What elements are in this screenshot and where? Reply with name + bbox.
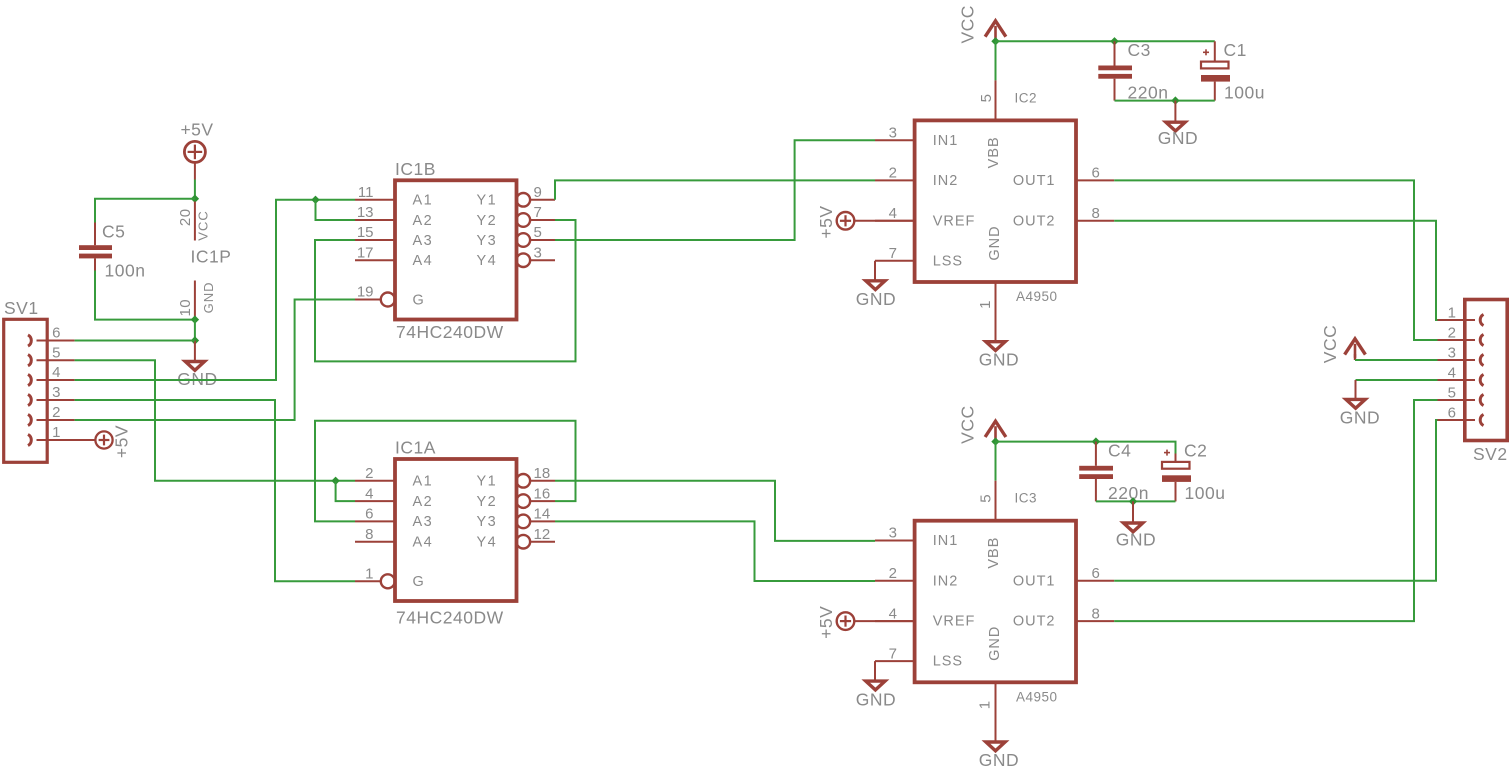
- node junction at C3 top: [1110, 37, 1118, 45]
- ic IC3 pin 4 VREF: [875, 620, 915, 622]
- ground GND below IC1P: [194, 341, 196, 361]
- svg-text:100u: 100u: [1224, 83, 1265, 103]
- svg-text:GND: GND: [987, 626, 1003, 661]
- node junction GND of C4/C2: [1129, 497, 1137, 505]
- ic IC1A pin 12 Y4 inverted output: [517, 535, 531, 549]
- svg-text:GND: GND: [1158, 128, 1198, 148]
- ic IC2 pin 2 IN2: [875, 179, 915, 181]
- ic IC1B 74HC240 buffer body: [395, 180, 517, 319]
- ground GND at SV2 pin4: [1356, 379, 1438, 381]
- svg-text:2: 2: [889, 165, 897, 182]
- wire IC1B Y3 to IC2 IN1: [555, 140, 875, 240]
- ic IC3 pin 5 VBB: [995, 481, 997, 521]
- wire VCC to SV2 pin3: [1355, 359, 1438, 361]
- ic IC1A pin 18 Y1 inverted output: [517, 474, 531, 488]
- ic IC2 A4950 motor driver body: [915, 120, 1076, 282]
- wire junction to IC1A A2: [336, 481, 355, 501]
- svg-text:A4: A4: [413, 535, 434, 551]
- ic IC1A pin 16 Y2 inverted output: [517, 494, 531, 508]
- svg-text:4: 4: [365, 485, 373, 502]
- svg-text:GND: GND: [979, 750, 1019, 770]
- svg-text:3: 3: [52, 384, 60, 401]
- ic IC1B pin 19 G enable: [355, 299, 381, 301]
- svg-text:Y1: Y1: [477, 193, 498, 209]
- svg-text:A1: A1: [413, 193, 434, 209]
- svg-text:4: 4: [1448, 364, 1456, 381]
- svg-text:VCC: VCC: [957, 405, 977, 443]
- wire C3 bottom to C1 bottom: [1115, 100, 1215, 102]
- svg-text:IC1B: IC1B: [395, 159, 436, 179]
- ic IC2 pin 4 VREF: [875, 220, 915, 222]
- svg-text:VBB: VBB: [986, 136, 1002, 168]
- svg-text:5: 5: [978, 94, 995, 103]
- svg-text:16: 16: [534, 485, 551, 502]
- svg-text:7: 7: [534, 204, 542, 221]
- svg-text:A4950: A4950: [1016, 689, 1058, 704]
- svg-text:VREF: VREF: [933, 614, 976, 630]
- svg-text:VCC: VCC: [957, 5, 977, 43]
- svg-text:19: 19: [357, 284, 374, 301]
- svg-text:2: 2: [365, 465, 373, 482]
- svg-text:GND: GND: [856, 289, 896, 309]
- ic IC3 pin 8 OUT2: [1076, 620, 1114, 622]
- svg-text:1: 1: [52, 424, 60, 441]
- svg-text:220n: 220n: [1108, 483, 1149, 503]
- ic IC3 pin 6 OUT1: [1076, 580, 1114, 582]
- svg-text:Y3: Y3: [477, 233, 498, 249]
- svg-text:IC1A: IC1A: [395, 438, 436, 458]
- ic IC1B pin 3 Y4 inverted output: [517, 253, 531, 267]
- ground GND below C3/C1: [1174, 101, 1176, 121]
- supply VCC symbol above IC3: [985, 421, 1006, 437]
- wire C4 bottom to C2 bottom: [1096, 500, 1176, 502]
- wire VCC junction to IC3 VBB pin: [995, 442, 997, 481]
- svg-text:IN1: IN1: [933, 533, 959, 549]
- svg-text:A2: A2: [413, 213, 434, 229]
- ic IC2 pin 8 OUT2: [1076, 220, 1114, 222]
- wire IC2 OUT1 to SV2 pin2: [1114, 180, 1437, 340]
- connector SV1 pin 2: [28, 414, 31, 425]
- ic IC3 pin 7 LSS: [875, 660, 915, 662]
- svg-text:6: 6: [365, 506, 373, 523]
- node junction IC1B A1/A2: [311, 196, 319, 204]
- wire IC1A Y1 to IC3 IN1: [555, 481, 875, 541]
- ic IC1B pin 17 A4: [355, 259, 395, 261]
- svg-text:A3: A3: [413, 233, 434, 249]
- ic IC1A 74HC240 buffer body: [395, 459, 517, 601]
- svg-text:LSS: LSS: [933, 654, 963, 670]
- svg-text:LSS: LSS: [933, 253, 963, 269]
- capacitor C2 polarized: [1175, 454, 1177, 462]
- connector SV2 pin 5: [1480, 394, 1483, 405]
- svg-text:+5V: +5V: [180, 120, 213, 140]
- svg-text:IN2: IN2: [933, 573, 959, 589]
- ic IC1A pin 14 Y3 inverted output: [517, 515, 531, 529]
- wire IC3 OUT1 to SV2 pin6: [1114, 420, 1437, 581]
- svg-text:1: 1: [977, 300, 994, 309]
- ic IC1B pin 11 A1: [355, 199, 395, 201]
- node VCC junction above IC2: [991, 37, 999, 45]
- node VCC junction at IC1P pin20: [191, 195, 199, 203]
- ground GND below C4/C2: [1132, 501, 1134, 521]
- svg-text:1: 1: [1448, 304, 1456, 321]
- svg-text:IC2: IC2: [1015, 90, 1038, 105]
- svg-text:A3: A3: [413, 514, 434, 530]
- node junction at C4 top: [1092, 437, 1100, 445]
- svg-text:12: 12: [534, 526, 551, 543]
- supply +5V symbol at IC2 VREF: [837, 212, 855, 230]
- svg-text:GND: GND: [1116, 529, 1156, 549]
- svg-text:Y4: Y4: [477, 535, 498, 551]
- wire IC2 VCC to bypass capacitors: [996, 40, 1215, 42]
- ic IC1B pin 13 A2: [355, 219, 395, 221]
- svg-text:OUT2: OUT2: [1013, 213, 1056, 229]
- svg-text:6: 6: [1448, 404, 1456, 421]
- capacitor C4: [1095, 442, 1097, 466]
- svg-text:5: 5: [52, 344, 60, 361]
- ic IC3 pin 3 IN1: [875, 540, 915, 542]
- ground GND at IC3 LSS: [874, 661, 876, 680]
- ic IC3 A4950 motor driver body: [915, 521, 1076, 683]
- ic IC1A pin 6 A3: [355, 520, 395, 522]
- wire SV1 pin3 to IC1A G: [75, 400, 355, 581]
- ic IC1A pin 1 G enable: [355, 580, 381, 582]
- svg-text:C5: C5: [102, 222, 125, 242]
- svg-text:+5V: +5V: [816, 205, 836, 238]
- svg-text:6: 6: [52, 325, 60, 342]
- svg-text:IC3: IC3: [1015, 491, 1038, 506]
- svg-text:Y4: Y4: [477, 253, 498, 269]
- svg-text:17: 17: [357, 244, 374, 261]
- wire IC1B Y1 to IC2 IN2: [555, 180, 875, 199]
- connector SV2 body: [1465, 300, 1507, 441]
- wire junction to GND net: [194, 320, 196, 341]
- svg-text:IC1P: IC1P: [191, 247, 232, 267]
- svg-text:IN1: IN1: [933, 133, 959, 149]
- ic IC1B pin 7 Y2 inverted output: [517, 213, 531, 227]
- svg-text:A1: A1: [413, 474, 434, 490]
- svg-text:OUT1: OUT1: [1013, 573, 1056, 589]
- ic IC1A pin 8 A4: [355, 541, 395, 543]
- svg-text:Y2: Y2: [477, 494, 498, 510]
- ic IC1A pin 4 A2: [355, 500, 395, 502]
- ic IC1B pin 9 Y1 inverted output: [517, 193, 531, 207]
- svg-text:100u: 100u: [1185, 483, 1226, 503]
- svg-text:Y1: Y1: [477, 474, 498, 490]
- wire SV1 pin5 to IC1A A1: [75, 360, 355, 481]
- svg-text:GND: GND: [1340, 407, 1380, 427]
- svg-text:7: 7: [889, 645, 897, 662]
- svg-text:A4: A4: [413, 253, 434, 269]
- svg-text:3: 3: [1448, 344, 1456, 361]
- svg-text:C4: C4: [1108, 441, 1131, 461]
- wire SV1 pin2 to IC1B G: [75, 300, 355, 421]
- svg-text:8: 8: [1092, 205, 1100, 222]
- svg-text:3: 3: [534, 244, 542, 261]
- wire C5 bottom to GND junction: [95, 271, 195, 320]
- ic IC2 pin 5 VBB: [995, 80, 997, 120]
- svg-text:4: 4: [889, 605, 897, 622]
- svg-text:18: 18: [534, 465, 551, 482]
- svg-text:8: 8: [1092, 605, 1100, 622]
- ic IC1A pin 2 A1: [355, 480, 395, 482]
- connector SV2 pin 3: [1480, 354, 1483, 365]
- wire VCC junction to IC2 VBB pin: [995, 41, 997, 80]
- svg-text:6: 6: [1092, 565, 1100, 582]
- svg-text:2: 2: [1448, 324, 1456, 341]
- svg-text:GND: GND: [201, 281, 216, 313]
- svg-text:SV2: SV2: [1473, 444, 1508, 464]
- svg-text:14: 14: [534, 506, 551, 523]
- connector SV1 pin 3: [28, 394, 31, 405]
- capacitor C5: [94, 223, 96, 246]
- svg-text:G: G: [413, 292, 426, 308]
- ic IC1B pin 15 A3: [355, 239, 395, 241]
- ground GND below IC3: [986, 742, 1005, 751]
- svg-text:GND: GND: [856, 689, 896, 709]
- capacitor C1 polarized: [1214, 41, 1216, 61]
- node junction GND net / SV1 pin6: [191, 336, 199, 344]
- svg-text:1: 1: [977, 700, 994, 709]
- svg-text:20: 20: [177, 208, 194, 226]
- supply VCC symbol at SV2 pin3: [1345, 339, 1366, 355]
- node junction IC1P pin10 / C5: [191, 315, 199, 323]
- wire IC1B Y2 feedback to A3: [315, 220, 576, 361]
- ic IC1P power pin 10 GND: [194, 281, 196, 320]
- wire VCC junction to C5 top: [95, 199, 195, 223]
- svg-text:C2: C2: [1184, 441, 1207, 461]
- connector SV1 pin 1: [28, 434, 31, 445]
- connector SV1 pin 4: [28, 374, 31, 385]
- svg-text:GND: GND: [979, 350, 1019, 370]
- connector SV2 pin 4: [1480, 374, 1483, 385]
- svg-text:74HC240DW: 74HC240DW: [396, 322, 504, 342]
- ic IC2 pin 6 OUT1: [1076, 179, 1114, 181]
- svg-text:74HC240DW: 74HC240DW: [396, 608, 504, 628]
- node junction GND of C3/C1: [1171, 96, 1179, 104]
- supply +5V symbol at IC3 VREF: [837, 612, 855, 630]
- ic IC1B pin 5 Y3 inverted output: [517, 233, 531, 247]
- svg-text:OUT1: OUT1: [1013, 173, 1056, 189]
- node junction IC1A A1/A2: [331, 477, 339, 485]
- connector SV1 body: [4, 319, 48, 462]
- svg-text:5: 5: [534, 224, 542, 241]
- wire IC1A Y2 feedback to A3: [315, 421, 576, 522]
- svg-text:G: G: [413, 574, 426, 590]
- ic IC2 pin 7 LSS: [875, 260, 915, 262]
- svg-text:8: 8: [365, 526, 373, 543]
- svg-text:5: 5: [978, 494, 995, 503]
- wire IC3 OUT2 to SV2 pin5: [1114, 400, 1437, 621]
- svg-text:2: 2: [889, 565, 897, 582]
- wire SV1 pin4 to IC1B A1: [75, 200, 355, 380]
- ic IC2 pin 1 GND bottom: [995, 282, 997, 341]
- svg-text:9: 9: [534, 184, 542, 201]
- svg-text:3: 3: [889, 525, 897, 542]
- ic IC3 pin 2 IN2: [875, 580, 915, 582]
- ground GND at IC2 LSS: [874, 261, 876, 280]
- svg-text:OUT2: OUT2: [1013, 614, 1056, 630]
- node VCC junction above IC3: [991, 437, 999, 445]
- svg-text:3: 3: [889, 124, 897, 141]
- wire IC1A Y3 to IC3 IN2: [555, 521, 875, 581]
- svg-text:SV1: SV1: [4, 298, 39, 318]
- svg-text:220n: 220n: [1128, 83, 1169, 103]
- supply +5V symbol at IC1P pin 20: [184, 141, 205, 162]
- ic IC3 pin 1 GND bottom: [995, 682, 997, 741]
- svg-text:7: 7: [889, 245, 897, 262]
- svg-text:Y2: Y2: [477, 213, 498, 229]
- wire +5V to VCC junction: [194, 180, 196, 199]
- connector SV2 pin 6: [1480, 414, 1483, 425]
- svg-text:+5V: +5V: [816, 606, 836, 639]
- wire SV1 pin6 to GND junction: [75, 340, 195, 342]
- svg-text:1: 1: [365, 566, 373, 583]
- ground GND below IC2: [986, 342, 1005, 351]
- svg-text:GND: GND: [987, 225, 1003, 260]
- svg-text:4: 4: [52, 364, 60, 381]
- svg-text:5: 5: [1448, 384, 1456, 401]
- svg-text:VCC: VCC: [1320, 325, 1340, 363]
- svg-text:10: 10: [177, 299, 194, 317]
- svg-text:13: 13: [357, 204, 374, 221]
- svg-text:Y3: Y3: [477, 514, 498, 530]
- svg-text:VBB: VBB: [986, 537, 1002, 569]
- svg-text:2: 2: [52, 404, 60, 421]
- svg-text:11: 11: [358, 184, 374, 201]
- svg-text:15: 15: [357, 224, 374, 241]
- svg-text:100n: 100n: [105, 261, 146, 281]
- connector SV1 pin 5: [28, 355, 31, 366]
- svg-text:C1: C1: [1224, 40, 1247, 60]
- svg-text:4: 4: [889, 205, 897, 222]
- svg-text:A2: A2: [413, 494, 434, 510]
- wire IC3 VCC to bypass capacitors: [996, 442, 1176, 454]
- ic IC2 pin 3 IN1: [875, 139, 915, 141]
- connector SV2 pin 2: [1480, 334, 1483, 345]
- svg-text:VCC: VCC: [196, 210, 211, 240]
- connector SV1 pin 6: [28, 335, 31, 346]
- svg-text:C3: C3: [1128, 40, 1151, 60]
- svg-text:A4950: A4950: [1016, 289, 1058, 304]
- svg-text:+5V: +5V: [112, 425, 132, 458]
- capacitor C3: [1114, 41, 1116, 65]
- connector SV2 pin 1: [1480, 314, 1483, 325]
- supply VCC symbol above IC2: [985, 21, 1006, 37]
- ic IC1P power pin 20 VCC: [194, 202, 196, 241]
- svg-text:IN2: IN2: [933, 173, 959, 189]
- wire IC2 OUT2 to SV2 pin1: [1114, 221, 1437, 320]
- supply +5V symbol at SV1 pin 1: [95, 431, 112, 448]
- svg-text:6: 6: [1092, 165, 1100, 182]
- svg-text:VREF: VREF: [933, 213, 976, 229]
- wire junction to IC1B A2: [316, 200, 356, 220]
